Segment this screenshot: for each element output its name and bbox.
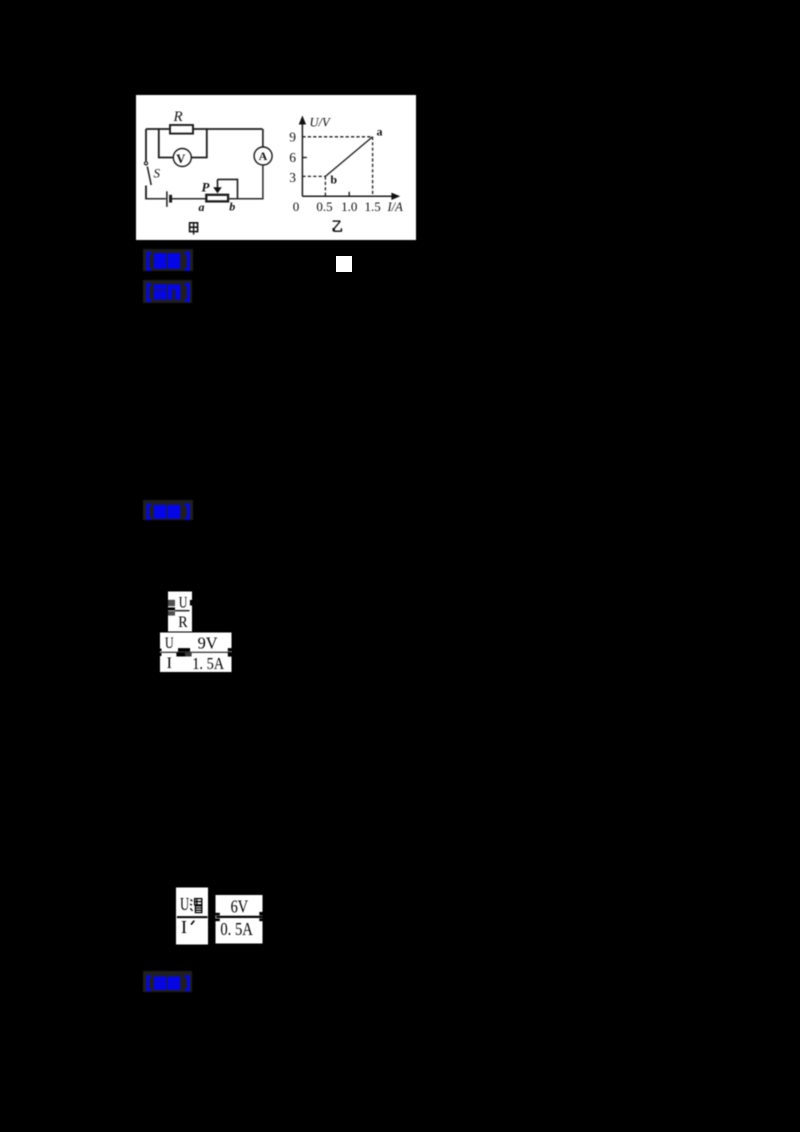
blue heading 【解答】: [143, 500, 193, 520]
y tick label 3: [289, 170, 296, 185]
svg-text:I/A: I/A: [387, 200, 404, 214]
numerator 9V: [198, 634, 218, 653]
denominator 1.5A: [192, 654, 224, 673]
svg-text:I: I: [181, 917, 187, 937]
x tick label 1.0: [341, 199, 357, 214]
fraction bar left: [177, 916, 208, 918]
svg-text:0: 0: [293, 199, 300, 214]
rheostat slider arrow P: [213, 179, 222, 193]
wire: voltmeter branch right: [191, 128, 207, 157]
figure panel: circuit 甲 and graph 乙: [136, 95, 416, 240]
stray equals marks right edge: [228, 648, 233, 657]
stray equals marks left edge: [159, 649, 161, 656]
label a: [199, 200, 205, 214]
denominator R: [178, 614, 188, 631]
full-width fraction bar: [161, 651, 231, 653]
svg-text:V: V: [176, 152, 185, 166]
wire: left vertical upper: [145, 129, 147, 161]
svg-text:1.0: 1.0: [341, 199, 357, 214]
svg-text:P: P: [202, 179, 211, 194]
overlapping equals sign (left): [167, 600, 176, 616]
svg-text:R: R: [178, 614, 188, 631]
x tick label 0.5: [316, 199, 332, 214]
svg-text:a: a: [199, 200, 205, 214]
dashed guide from b down to I=0.5: [324, 176, 326, 196]
numerator U: [179, 595, 188, 612]
formula image: fraction U滑 over I' = 6V/0.5A: [174, 886, 268, 948]
white formula background: [160, 633, 232, 673]
svg-text:R: R: [173, 109, 183, 125]
wire: bottom left segment: [145, 198, 166, 200]
wire: bottom middle segment: [172, 198, 206, 200]
white formula background: [168, 592, 192, 632]
y tick label 9: [289, 129, 296, 144]
equals sign between fractions: [215, 913, 220, 921]
voltmeter V: [173, 149, 191, 167]
axis label I/A: [387, 200, 404, 214]
label 甲 (figure 1 caption, hand-drawn glyph): [190, 223, 198, 235]
wire: top horizontal: [146, 128, 263, 130]
numerator U with 滑 subscript: [180, 894, 202, 914]
panel background: [136, 95, 416, 240]
svg-text:A: A: [259, 149, 268, 163]
svg-text:9V: 9V: [198, 634, 218, 653]
blue heading 【答案】: [143, 249, 193, 271]
numerator U: [165, 635, 174, 652]
graph axis X (I/A): [302, 193, 400, 200]
svg-text:U: U: [165, 635, 174, 652]
svg-text:U: U: [180, 894, 189, 914]
svg-text:I: I: [167, 655, 172, 672]
dashed guide at U=3 to point b: [302, 175, 325, 177]
svg-text:U/V: U/V: [310, 116, 332, 130]
numerator 6V: [231, 897, 249, 917]
svg-text:0.5: 0.5: [316, 199, 332, 214]
white formula background right: [216, 895, 263, 944]
label R: [173, 109, 183, 125]
svg-text:9: 9: [289, 129, 296, 144]
y tick mark at 6: [302, 157, 306, 159]
switch S: [144, 162, 151, 185]
point label b: [330, 173, 337, 187]
wire: right vertical lower: [262, 165, 264, 200]
graph axis Y (U/V): [299, 116, 306, 197]
wire: voltmeter branch left: [159, 128, 174, 157]
svg-text:U: U: [179, 595, 188, 612]
axis label U/V: [310, 116, 332, 130]
battery cell: [167, 191, 171, 207]
white formula background left: [176, 888, 208, 945]
formula image: fraction U over R: [165, 591, 195, 632]
label S: [154, 166, 161, 181]
x tick label 0: [293, 199, 300, 214]
svg-text:b: b: [330, 173, 337, 187]
blue heading 【分析】: [143, 280, 192, 303]
label 乙 (figure 2 caption, hand-drawn glyph): [333, 221, 342, 232]
rheostat body: [206, 195, 228, 202]
x tick label 1.5: [364, 199, 380, 214]
fraction bar: [175, 610, 190, 612]
stray mark right edge: [190, 600, 192, 606]
blue heading 【点评】: [143, 971, 192, 992]
svg-text:0. 5A: 0. 5A: [220, 919, 253, 939]
svg-text:S: S: [154, 166, 161, 181]
bold equals sign: [176, 648, 191, 656]
stray equals marks right edge: [259, 912, 263, 921]
label P: [202, 179, 211, 194]
ammeter A: [254, 147, 272, 165]
formula image: U/I = 9V/1.5A: [158, 631, 236, 673]
resistor R body: [170, 125, 193, 134]
y tick label 6: [289, 150, 296, 165]
dashed guide at U=9 to point a: [302, 136, 372, 138]
label b: [229, 200, 235, 214]
wire: slider to right (L shape): [218, 179, 238, 198]
denominator I: [167, 655, 172, 672]
svg-text:6: 6: [289, 150, 296, 165]
fraction bar right: [216, 916, 263, 918]
wire: bottom right segment: [228, 198, 263, 200]
svg-text:3: 3: [289, 170, 296, 185]
x tick mark at 1.0: [348, 192, 350, 197]
answer image placeholder (white square): [336, 256, 352, 272]
svg-text:6V: 6V: [231, 897, 249, 917]
denominator 0.5A: [220, 919, 253, 939]
U-I characteristic line b to a: [325, 137, 372, 177]
svg-text:b: b: [229, 200, 235, 214]
point label a: [377, 125, 383, 139]
dashed guide from a down to I=1.5: [372, 137, 374, 197]
svg-text:1.5: 1.5: [364, 199, 380, 214]
wire: right vertical upper: [262, 129, 264, 148]
svg-text:a: a: [377, 125, 383, 139]
wire: left vertical lower: [145, 186, 147, 200]
denominator I prime: [181, 917, 194, 937]
svg-text:1. 5A: 1. 5A: [192, 654, 224, 673]
